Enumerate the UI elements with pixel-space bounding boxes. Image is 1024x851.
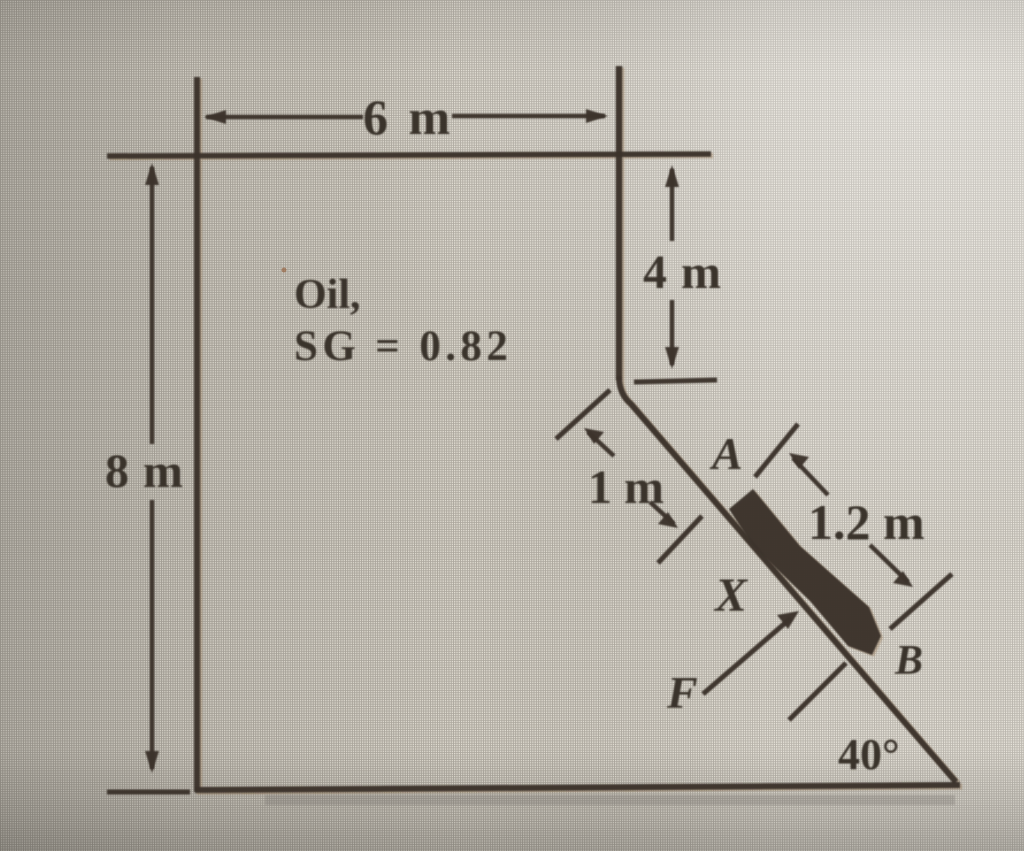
wire 8 m dimension line upper segment: [150, 167, 155, 444]
wire 8 m dimension line lower segment: [150, 500, 155, 769]
svg-text:X: X: [713, 569, 748, 622]
arrowhead 1.2 m lower (points down-right): [893, 571, 913, 587]
wire 1 m dimension top tick: [556, 390, 610, 439]
wire 4 m dimension line upper segment: [670, 169, 675, 241]
arrowhead 1 m upper (points up-left): [584, 428, 604, 444]
svg-text:F: F: [666, 667, 698, 718]
wire right tank wall (vertical upper part): [616, 66, 623, 380]
wire tank bottom: [195, 785, 960, 790]
wire 1.2 m dimension lower arrow shaft: [870, 545, 908, 582]
wire 6 m dimension line left segment: [206, 115, 363, 120]
arrowhead 8 m down: [145, 751, 159, 773]
wire 1 m dimension bottom tick: [658, 516, 702, 563]
svg-text:6 m: 6 m: [363, 89, 454, 145]
arrowhead 4 m up: [665, 165, 679, 187]
gate AB thick plate on incline: [729, 489, 881, 655]
shadow under tank bottom: [265, 795, 955, 805]
wire 1 m dimension lower arrow shaft: [650, 502, 674, 524]
wire 1.2 m dimension top tick: [755, 424, 798, 477]
wire X location tick below gate: [789, 663, 846, 720]
arrowhead force F (points up-right at gate): [777, 611, 799, 629]
svg-text:4 m: 4 m: [643, 246, 722, 299]
svg-text:8 m: 8 m: [105, 445, 184, 498]
arrowhead 8 m up: [145, 163, 159, 185]
svg-text:40°: 40°: [838, 730, 900, 779]
wire 4 m dimension line lower segment: [670, 300, 675, 365]
svg-text:1.2 m: 1.2 m: [808, 494, 925, 550]
wire force F arrow shaft: [703, 618, 791, 694]
arrowhead 1.2 m upper (points up-left): [789, 453, 809, 469]
arrowhead 1 m lower (points down-right): [658, 512, 678, 528]
wire oil surface line with 8 m top tick and 4 m top tick: [107, 154, 711, 156]
svg-text:SG = 0.82: SG = 0.82: [294, 323, 512, 370]
svg-text:1 m: 1 m: [588, 461, 664, 514]
warm scan fringe (ghost of ink): [109, 68, 962, 794]
wire inclined tank wall 40 degrees: [619, 376, 956, 782]
arrowhead 6 m right: [586, 109, 608, 123]
wire 1 m dimension upper arrow shaft: [588, 432, 614, 456]
svg-text:B: B: [894, 638, 923, 684]
arrowhead 4 m down: [665, 347, 679, 369]
wire 1.2 m dimension upper arrow shaft: [793, 458, 828, 495]
wire 1.2 m dimension bottom tick: [890, 574, 952, 629]
wire 4 m bottom tick: [634, 380, 717, 382]
wire 6 m dimension line right segment: [452, 114, 605, 119]
wire left tank wall: [194, 77, 200, 792]
wire 8 m bottom tick: [107, 790, 190, 795]
svg-text:A: A: [709, 428, 743, 479]
arrowhead 6 m left: [204, 110, 226, 124]
svg-text:Oil,: Oil,: [294, 272, 361, 318]
paper speck: [282, 268, 287, 273]
